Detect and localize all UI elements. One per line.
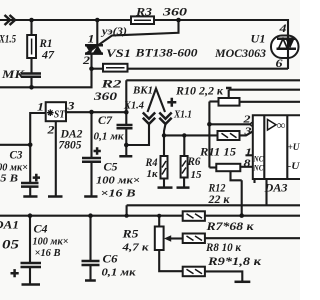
svg-text:R8 10 к: R8 10 к [205,242,242,254]
svg-text:R7*68 к: R7*68 к [205,221,255,233]
svg-text:∞: ∞ [277,118,286,132]
svg-text:U1: U1 [251,34,266,46]
svg-text:МОС3063: МОС3063 [214,48,266,60]
svg-text:C3: C3 [10,150,23,162]
svg-text:C4: C4 [34,224,48,236]
svg-text:1к: 1к [147,168,158,180]
svg-text:R3: R3 [135,7,152,19]
svg-text:0,1 мк: 0,1 мк [102,267,136,279]
svg-text:×16 В: ×16 В [35,247,61,259]
svg-text:DA3: DA3 [263,181,287,195]
svg-text:8: 8 [244,158,252,170]
svg-text:BT138-600: BT138-600 [134,48,197,60]
svg-text:0,1 мк: 0,1 мк [94,131,124,143]
svg-text:×16 В: ×16 В [101,188,136,200]
svg-text:X1.5: X1.5 [0,34,16,46]
svg-text:7805: 7805 [59,140,82,152]
svg-text:C6: C6 [103,254,118,266]
svg-text:360: 360 [162,7,188,19]
svg-text:360: 360 [93,91,118,103]
svg-text:R5: R5 [121,229,138,241]
svg-text:R10 2,2 к: R10 2,2 к [175,86,224,98]
svg-text:МК: МК [1,69,26,81]
svg-text:R6: R6 [187,156,201,168]
svg-text:R9*1,8 к: R9*1,8 к [207,256,263,268]
svg-text:ST: ST [54,110,66,121]
svg-text:R12: R12 [208,183,226,195]
svg-text:05: 05 [2,237,20,252]
svg-text:22 к: 22 к [207,194,230,206]
svg-text:X1.4: X1.4 [123,101,144,112]
svg-text:4,7 к: 4,7 к [121,242,149,254]
svg-text:100 мк×: 100 мк× [96,175,140,187]
svg-text:100 мк×: 100 мк× [33,236,69,248]
svg-text:X1.1: X1.1 [173,110,192,121]
svg-text:6: 6 [276,58,283,70]
svg-text:4: 4 [278,23,287,35]
svg-text:C5: C5 [104,162,118,174]
svg-text:2: 2 [242,114,251,126]
svg-text:R1: R1 [39,38,53,50]
svg-text:1: 1 [37,102,44,114]
svg-text:+U: +U [288,143,301,153]
svg-text:1: 1 [88,34,95,46]
svg-text:NC: NC [253,163,264,173]
svg-text:2: 2 [46,125,55,137]
svg-text:2: 2 [82,55,91,67]
svg-text:15: 15 [191,169,203,181]
svg-text:R2: R2 [100,79,122,91]
svg-text:47: 47 [41,50,55,62]
svg-text:-U: -U [288,162,301,172]
svg-text:DA1: DA1 [0,220,19,232]
svg-text:VS1: VS1 [106,48,131,60]
svg-text:25 В: 25 В [0,173,18,185]
svg-text:уэ(3): уэ(3) [100,26,127,38]
svg-text:3: 3 [243,126,252,138]
svg-text:R11 15: R11 15 [199,147,236,159]
svg-text:ВК1: ВК1 [132,85,153,97]
svg-text:C7: C7 [98,115,113,127]
svg-text:3: 3 [66,101,75,113]
